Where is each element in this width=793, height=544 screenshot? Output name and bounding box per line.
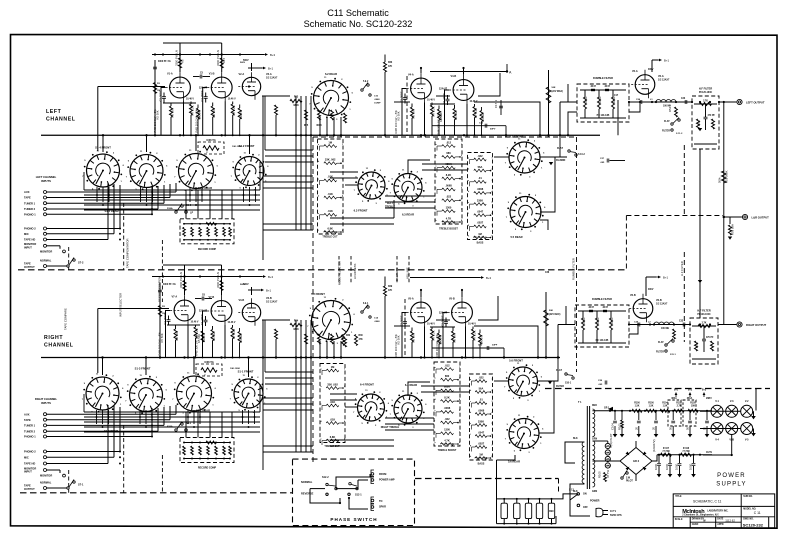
wire 5.6 to rumble right bbox=[538, 358, 558, 382]
svg-text:R4B 100 1W +-5%: R4B 100 1W +-5% bbox=[394, 334, 398, 358]
svg-text:2: 2 bbox=[342, 161, 343, 163]
tube V7-B bbox=[211, 301, 232, 322]
svg-text:(22V MAX): (22V MAX) bbox=[549, 313, 561, 316]
inductor L2 + C34 right bbox=[629, 324, 690, 326]
tube V6-B plate rail B+1 bbox=[645, 277, 647, 296]
svg-text:C1 39PF: C1 39PF bbox=[441, 315, 445, 326]
svg-text:50: 50 bbox=[686, 426, 690, 430]
heater return wire bbox=[731, 435, 733, 456]
svg-text:6.2 REAR: 6.2 REAR bbox=[325, 72, 337, 76]
svg-text:c: c bbox=[318, 178, 319, 180]
svg-text:6: 6 bbox=[342, 230, 343, 232]
svg-text:.0068: .0068 bbox=[445, 184, 452, 188]
svg-text:COMP: COMP bbox=[374, 102, 381, 104]
fuse-lamp row bbox=[501, 503, 507, 518]
resistor R5 plate load bbox=[178, 58, 181, 68]
svg-text:TAPE: TAPE bbox=[24, 262, 31, 266]
svg-text:10.46 V: 10.46 V bbox=[470, 100, 478, 103]
phase switch assembly box bbox=[293, 459, 415, 525]
svg-text:B+1: B+1 bbox=[266, 289, 271, 293]
svg-text:c: c bbox=[468, 180, 469, 182]
heater V-4 bbox=[711, 423, 723, 435]
wire risers rotaries to bus right bbox=[102, 358, 104, 376]
svg-text:MIC: MIC bbox=[24, 455, 29, 459]
tube V7-A bbox=[174, 300, 195, 321]
svg-text:26BV: 26BV bbox=[706, 398, 712, 400]
svg-text:FILTER: FILTER bbox=[662, 131, 670, 133]
wire main bus right channel bbox=[41, 357, 560, 359]
left HF filter PC120-160C bbox=[692, 96, 719, 149]
svg-text:INPUT: INPUT bbox=[24, 470, 32, 474]
svg-text:.01K: .01K bbox=[327, 209, 333, 213]
svg-text:C 11: C 11 bbox=[754, 511, 761, 515]
wire tube mid interconnects left bbox=[394, 101, 410, 103]
svg-text:GRN: GRN bbox=[592, 439, 597, 441]
svg-text:56A: 56A bbox=[478, 165, 483, 169]
svg-text:SPKR: SPKR bbox=[379, 506, 386, 509]
svg-text:R5: R5 bbox=[181, 59, 185, 63]
svg-text:C33: C33 bbox=[679, 321, 684, 323]
svg-text:1/2 12AX7: 1/2 12AX7 bbox=[658, 78, 670, 81]
svg-text:10.46 V: 10.46 V bbox=[186, 98, 194, 101]
svg-text:DWG NO.: DWG NO. bbox=[743, 519, 754, 521]
svg-text:560V: 560V bbox=[240, 62, 246, 64]
svg-text:B+3: B+3 bbox=[702, 390, 707, 392]
svg-text:CHANNEL: CHANNEL bbox=[46, 117, 76, 123]
svg-text:.01K: .01K bbox=[330, 417, 336, 421]
svg-text:TO: TO bbox=[379, 500, 382, 503]
svg-text:TUNER 2: TUNER 2 bbox=[24, 207, 36, 211]
svg-text:10.46 V: 10.46 V bbox=[228, 98, 236, 101]
rotary switch S5-6R 5.6 REAR bbox=[509, 419, 539, 449]
rotary switch S1-3F S1-3 FRONT bbox=[86, 377, 119, 410]
svg-text:R6 56A: R6 56A bbox=[212, 108, 216, 117]
stage passives R22 R20A C7A bbox=[461, 290, 463, 297]
svg-text:AUX: AUX bbox=[24, 412, 30, 416]
svg-text:1300: 1300 bbox=[444, 428, 450, 432]
svg-text:R4B 100 1W +-5%: R4B 100 1W +-5% bbox=[437, 111, 441, 135]
svg-text:V4-B: V4-B bbox=[451, 75, 457, 78]
svg-text:LP: LP bbox=[190, 212, 193, 215]
svg-text:B+1: B+1 bbox=[268, 67, 273, 71]
svg-text:3300 PW LN: 3300 PW LN bbox=[179, 272, 183, 288]
svg-text:R7 2.2K: R7 2.2K bbox=[232, 329, 236, 339]
tube V6-A bbox=[635, 75, 655, 95]
svg-text:R105: R105 bbox=[676, 403, 682, 405]
svg-text:.0047: .0047 bbox=[477, 210, 484, 214]
svg-text:2: 2 bbox=[492, 169, 493, 171]
svg-text:TAPE HD: TAPE HD bbox=[24, 462, 35, 466]
stage passives R7 R6 C1 bbox=[179, 55, 181, 73]
wire risers to selector right bbox=[175, 405, 177, 414]
B+ takeoff arrows bbox=[675, 394, 677, 398]
junction dots bbox=[102, 134, 104, 136]
svg-text:S12-2: S12-2 bbox=[322, 476, 329, 479]
svg-text:10K: 10K bbox=[691, 405, 696, 407]
svg-text:50PV: 50PV bbox=[490, 129, 496, 131]
svg-text:R6 56A: R6 56A bbox=[453, 333, 457, 342]
svg-text:360A: 360A bbox=[671, 397, 677, 400]
stage passives R18 R16A C6A bbox=[420, 290, 422, 297]
heater ground arrows bbox=[753, 411, 755, 416]
svg-text:SUB NO.: SUB NO. bbox=[743, 496, 753, 498]
svg-text:470 PF: 470 PF bbox=[706, 336, 714, 339]
svg-text:6.8K: 6.8K bbox=[330, 435, 336, 439]
svg-text:S 11-2: S 11-2 bbox=[676, 133, 683, 135]
tube V3-B bbox=[242, 303, 260, 321]
rotary switch S1-4F S1-4 FRONT bbox=[87, 154, 120, 187]
switch S9-2 + C10 comp bbox=[361, 89, 363, 91]
svg-text:R100: R100 bbox=[648, 403, 654, 405]
rotary switch S6-3F 6.3 FRONT bbox=[358, 172, 385, 199]
svg-text:Schematic No. SC120-232: Schematic No. SC120-232 bbox=[304, 19, 413, 29]
plate rail top left bbox=[163, 42, 222, 44]
svg-text:.0068: .0068 bbox=[478, 408, 485, 412]
svg-text:PHONO 2: PHONO 2 bbox=[24, 227, 36, 231]
svg-text:INPUT: INPUT bbox=[24, 245, 32, 249]
svg-text:.0068: .0068 bbox=[374, 321, 380, 323]
svg-text:B+1: B+1 bbox=[663, 276, 668, 280]
svg-text:LEFT OUTPUT: LEFT OUTPUT bbox=[746, 101, 765, 105]
dots on B+ chain bbox=[609, 410, 611, 412]
right treble cut ladder PC120-105B bbox=[320, 364, 345, 443]
right treble boost ladder PC120-102B bbox=[434, 362, 460, 446]
svg-text:10.46 V: 10.46 V bbox=[427, 323, 435, 326]
svg-text:6.8K: 6.8K bbox=[327, 226, 333, 230]
svg-text:RUMBLE FILTER: RUMBLE FILTER bbox=[593, 77, 613, 80]
svg-text:OUTPUT: OUTPUT bbox=[24, 487, 35, 491]
phase jacks TO SPKR bbox=[371, 497, 374, 504]
stage passives R17 R16 C6 bbox=[420, 68, 422, 73]
svg-text:BASS: BASS bbox=[477, 242, 484, 245]
wire selector interconnects left bbox=[84, 189, 260, 191]
transformer primary leads bbox=[565, 442, 584, 463]
rotary switch S5-6F 5.6 FRONT bbox=[509, 367, 538, 396]
svg-text:6: 6 bbox=[459, 421, 460, 423]
svg-text:1112 62: 1112 62 bbox=[725, 519, 735, 523]
svg-text:5.9-2: 5.9-2 bbox=[363, 81, 369, 83]
svg-text:1: 1 bbox=[459, 367, 460, 369]
right HF filter PC120-160C bbox=[690, 318, 718, 364]
svg-text:R6 56A: R6 56A bbox=[454, 111, 458, 120]
dots on input wires bbox=[151, 191, 153, 193]
B+ filter chain resistors bbox=[630, 410, 712, 412]
output jack L&amp;R OUTPUT bbox=[724, 216, 742, 218]
wire bus risers misc bbox=[567, 84, 569, 102]
svg-text:47K: 47K bbox=[388, 65, 393, 68]
wire selector to tone interconnects left bbox=[265, 149, 313, 151]
svg-text:PHONO 1: PHONO 1 bbox=[24, 435, 36, 439]
svg-text:.01K: .01K bbox=[327, 192, 333, 196]
inductor L1 + C24 left bbox=[629, 101, 692, 103]
dots selector interconnects bbox=[96, 194, 98, 196]
svg-text:680: 680 bbox=[446, 151, 451, 155]
svg-text:.0047: .0047 bbox=[604, 85, 610, 88]
svg-text:(22V MAX): (22V MAX) bbox=[552, 90, 564, 93]
wire tone internal left bbox=[330, 171, 358, 173]
svg-text:3: 3 bbox=[342, 178, 343, 180]
svg-text:S 13: S 13 bbox=[569, 490, 574, 492]
svg-text:100K 5%: 100K 5% bbox=[206, 140, 215, 142]
svg-text:PHONO 2: PHONO 2 bbox=[24, 450, 36, 454]
svg-text:e: e bbox=[436, 187, 437, 189]
svg-text:B+3: B+3 bbox=[486, 276, 491, 280]
gang dashed record compensator bbox=[161, 240, 163, 302]
wire selector to tone interconnects right bbox=[265, 371, 313, 373]
input coupling parts bbox=[159, 283, 161, 358]
svg-text:5.6 FRONT: 5.6 FRONT bbox=[509, 359, 523, 363]
rotary switch S6-4F 6-4 FRONT bbox=[358, 394, 385, 421]
svg-text:PHONO 1: PHONO 1 bbox=[24, 212, 36, 216]
svg-text:.0068: .0068 bbox=[374, 99, 380, 101]
wire tone internal right bbox=[330, 393, 357, 395]
svg-text:OFF: OFF bbox=[583, 506, 588, 509]
svg-text:4.7K: 4.7K bbox=[446, 216, 452, 220]
rotary switch S5-5F 5.5 FRONT bbox=[509, 142, 540, 173]
svg-text:B+3: B+3 bbox=[270, 53, 275, 57]
svg-text:.022: .022 bbox=[444, 417, 450, 421]
record comp network right bbox=[180, 438, 234, 463]
svg-text:RECORD COMP: RECORD COMP bbox=[198, 248, 217, 251]
svg-text:POWER AMP: POWER AMP bbox=[379, 479, 395, 482]
wire main bus left channel bbox=[41, 134, 600, 136]
phase jacks FROM POWER AMP bbox=[371, 470, 374, 477]
svg-text:8.2K: 8.2K bbox=[446, 173, 452, 177]
svg-text:1000: 1000 bbox=[675, 463, 679, 470]
svg-text:1M: 1M bbox=[478, 232, 482, 236]
svg-text:NORMAL: NORMAL bbox=[301, 480, 313, 484]
svg-text:R105: R105 bbox=[598, 471, 602, 478]
svg-text:PHASE SWITCH: PHASE SWITCH bbox=[330, 517, 377, 522]
B+ rail left bbox=[152, 54, 264, 56]
svg-text:1M: 1M bbox=[157, 90, 160, 92]
svg-text:3: 3 bbox=[459, 388, 460, 390]
svg-text:FILTER: FILTER bbox=[556, 386, 564, 388]
svg-text:V6-B: V6-B bbox=[630, 294, 636, 297]
switch S8-1 LP right bbox=[175, 429, 177, 431]
heater V-1 bbox=[711, 405, 723, 417]
bridge rectifier GR3 bbox=[620, 448, 652, 475]
svg-text:S6-2: S6-2 bbox=[186, 204, 192, 207]
svg-text:.0047: .0047 bbox=[590, 85, 596, 88]
svg-text:FLAT: FLAT bbox=[658, 341, 664, 344]
svg-text:INPUTS: INPUTS bbox=[41, 179, 51, 183]
svg-text:ON: ON bbox=[583, 493, 587, 496]
svg-text:.0068: .0068 bbox=[444, 406, 451, 410]
svg-text:560V: 560V bbox=[240, 284, 246, 286]
svg-text:FIL/MRD: FIL/MRD bbox=[556, 160, 566, 162]
wire stage bias right bbox=[167, 324, 200, 326]
wire record comp risers right bbox=[185, 412, 187, 438]
wire risers to selector left bbox=[175, 183, 177, 192]
svg-text:1.5K: 1.5K bbox=[635, 405, 640, 407]
heater V-5 bbox=[741, 423, 753, 435]
svg-text:1.5K: 1.5K bbox=[663, 405, 668, 407]
rotary switch S1-2R S1-2 REAR bbox=[179, 154, 214, 189]
resistors R107 R108 7.5 5W bbox=[657, 454, 712, 456]
gang dashed loudness comp right bbox=[404, 299, 406, 358]
heater V-2 bbox=[741, 405, 753, 417]
svg-text:.01: .01 bbox=[479, 397, 483, 401]
svg-text:B+1: B+1 bbox=[664, 59, 669, 63]
svg-text:H.F FILTER: H.F FILTER bbox=[699, 88, 712, 91]
dots rails bbox=[154, 53, 156, 55]
svg-text:1: 1 bbox=[344, 369, 345, 371]
svg-text:C17: C17 bbox=[614, 95, 619, 97]
svg-text:2.2K: 2.2K bbox=[695, 342, 699, 348]
svg-text:.012: .012 bbox=[446, 140, 452, 144]
record comp network left bbox=[180, 219, 234, 244]
svg-text:7.5 5W: 7.5 5W bbox=[662, 451, 670, 453]
transformer T1 bbox=[586, 406, 588, 489]
svg-text:1M: 1M bbox=[328, 140, 332, 144]
svg-text:R7 2.2K: R7 2.2K bbox=[473, 330, 477, 340]
svg-text:.0047: .0047 bbox=[588, 306, 594, 309]
svg-text:REVERSE: REVERSE bbox=[301, 492, 314, 496]
svg-text:OUTPUT: OUTPUT bbox=[24, 265, 35, 269]
svg-text:5.5 REAR: 5.5 REAR bbox=[510, 235, 522, 239]
svg-text:1: 1 bbox=[492, 379, 493, 381]
title block bottom row bbox=[689, 517, 691, 528]
svg-text:33K .002: 33K .002 bbox=[327, 382, 338, 386]
svg-text:SCALE: SCALE bbox=[675, 518, 683, 521]
svg-text:10.46 V: 10.46 V bbox=[228, 321, 236, 324]
svg-text:c: c bbox=[321, 404, 322, 406]
resistor R34 + node A bbox=[548, 70, 550, 135]
svg-text:S7-2: S7-2 bbox=[78, 261, 84, 265]
svg-text:TREBLE CUT: TREBLE CUT bbox=[324, 445, 340, 448]
svg-text:V5-B: V5-B bbox=[449, 298, 455, 301]
svg-text:TUNER 1: TUNER 1 bbox=[24, 201, 36, 205]
svg-text:V6-A: V6-A bbox=[632, 70, 638, 73]
svg-text:CHANNEL: CHANNEL bbox=[44, 343, 74, 349]
svg-text:(16A/27V): (16A/27V) bbox=[652, 439, 656, 452]
svg-text:330K: 330K bbox=[477, 198, 483, 202]
left rumble filter PC120-13B bbox=[577, 84, 629, 122]
svg-text:V1-A: V1-A bbox=[167, 73, 173, 76]
filter caps row bbox=[614, 411, 616, 420]
svg-text:V4-A: V4-A bbox=[408, 74, 414, 77]
svg-text:1000: 1000 bbox=[654, 463, 658, 470]
resistor R15A plate load bbox=[220, 281, 223, 291]
svg-text:BALANCE: BALANCE bbox=[395, 268, 399, 281]
svg-text:1/2 12AX7: 1/2 12AX7 bbox=[656, 302, 668, 305]
svg-text:INPUT SELECTOR: INPUT SELECTOR bbox=[119, 293, 123, 317]
svg-text:50: 50 bbox=[669, 426, 673, 430]
svg-text:5: 5 bbox=[459, 410, 460, 412]
svg-text:R15: R15 bbox=[222, 57, 226, 63]
rotary switch S1-4R S1-4 REAR bbox=[130, 155, 163, 188]
svg-text:LEFT CHANNEL: LEFT CHANNEL bbox=[36, 175, 57, 179]
svg-text:PC120-134A: PC120-134A bbox=[475, 457, 488, 460]
wire under 5.2 front bbox=[319, 341, 321, 358]
svg-text:100K: 100K bbox=[598, 96, 602, 103]
tube V6-B bbox=[633, 299, 653, 319]
svg-text:300V: 300V bbox=[648, 69, 654, 71]
svg-text:FLAT: FLAT bbox=[556, 369, 562, 372]
svg-text:POWER: POWER bbox=[717, 473, 746, 479]
svg-text:TAPE COMPENSATOR: TAPE COMPENSATOR bbox=[126, 238, 130, 268]
svg-text:c: c bbox=[435, 388, 436, 390]
switch 3W PILOT bbox=[621, 477, 623, 479]
svg-text:1M: 1M bbox=[162, 313, 165, 315]
svg-text:100 1W: 100 1W bbox=[239, 110, 243, 120]
svg-text:7.5 5W: 7.5 5W bbox=[682, 451, 690, 453]
svg-text:2.7K: 2.7K bbox=[703, 101, 708, 103]
wire tube mid interconnects right bbox=[394, 325, 410, 327]
svg-text:680: 680 bbox=[445, 374, 450, 378]
svg-text:5: 5 bbox=[342, 213, 343, 215]
resistor C30 right + B+3 bbox=[545, 292, 547, 358]
wire tone area connects bbox=[408, 160, 430, 173]
svg-text:8: 8 bbox=[492, 236, 493, 238]
resistor R15 plate load bbox=[220, 58, 223, 68]
svg-text:RED: RED bbox=[592, 405, 597, 407]
svg-text:c: c bbox=[470, 401, 471, 403]
svg-text:FROM: FROM bbox=[379, 473, 386, 476]
svg-text:.0027: .0027 bbox=[478, 441, 485, 445]
svg-text:2: 2 bbox=[459, 378, 460, 380]
svg-text:7: 7 bbox=[459, 431, 460, 433]
svg-text:POWER: POWER bbox=[590, 500, 600, 503]
svg-text:.022: .022 bbox=[477, 154, 483, 158]
switch S6-2 LP bbox=[175, 211, 177, 213]
svg-text:L&R OUTPUT: L&R OUTPUT bbox=[752, 216, 770, 220]
gang dashed bus below right channel bbox=[20, 492, 293, 494]
svg-text:4.7K: 4.7K bbox=[444, 438, 450, 442]
resistor R30 col right bbox=[355, 335, 358, 346]
svg-text:R105: R105 bbox=[690, 403, 696, 405]
resistor R11 100K 5% network left bbox=[198, 142, 224, 154]
svg-text:LABORATORY INC.: LABORATORY INC. bbox=[707, 509, 728, 512]
svg-text:6.3 FRONT: 6.3 FRONT bbox=[354, 209, 368, 213]
tube V5-B bbox=[452, 302, 473, 323]
svg-text:RIGHT TREBLE: RIGHT TREBLE bbox=[381, 426, 400, 429]
svg-text:c: c bbox=[436, 166, 437, 168]
svg-text:3300 PW LN: 3300 PW LN bbox=[216, 272, 220, 288]
svg-text:33K .002: 33K .002 bbox=[325, 158, 336, 162]
wire rumble filter left connections bbox=[560, 101, 577, 103]
svg-text:10.46 V: 10.46 V bbox=[191, 321, 199, 324]
svg-text:S 10-2: S 10-2 bbox=[578, 154, 585, 156]
resistor R53 500K bbox=[722, 171, 727, 183]
svg-text:3300 PF 1%: 3300 PF 1% bbox=[163, 284, 176, 286]
resistor R5A plate load bbox=[183, 281, 186, 291]
svg-text:S8-1: S8-1 bbox=[186, 422, 192, 425]
resistor R59 68A + ground bbox=[729, 217, 731, 224]
svg-text:V1-B: V1-B bbox=[209, 73, 215, 76]
phase wires bbox=[336, 480, 358, 489]
svg-text:7: 7 bbox=[461, 209, 462, 211]
svg-text:V5-A: V5-A bbox=[408, 298, 414, 301]
svg-text:300V: 300V bbox=[648, 289, 654, 291]
svg-text:1000: 1000 bbox=[665, 463, 669, 470]
svg-text:TAPE: TAPE bbox=[24, 484, 31, 488]
svg-text:CHKD: CHKD bbox=[692, 524, 699, 526]
wire under 6.2 rear bbox=[319, 117, 321, 135]
svg-text:1: 1 bbox=[492, 158, 493, 160]
svg-text:R6 56A: R6 56A bbox=[171, 108, 175, 117]
svg-text:R30: R30 bbox=[359, 335, 364, 337]
svg-text:1300: 1300 bbox=[446, 205, 452, 209]
svg-text:PC 120-13B: PC 120-13B bbox=[596, 340, 609, 342]
svg-text:R 107: R 107 bbox=[663, 448, 670, 450]
svg-text:TAPE COMPARE: TAPE COMPARE bbox=[64, 308, 68, 330]
svg-text:R59 68A: R59 68A bbox=[731, 224, 735, 235]
svg-text:S1-3 FRONT: S1-3 FRONT bbox=[135, 367, 151, 371]
svg-text:8.2K: 8.2K bbox=[444, 395, 450, 399]
resistor network right bbox=[196, 364, 222, 376]
